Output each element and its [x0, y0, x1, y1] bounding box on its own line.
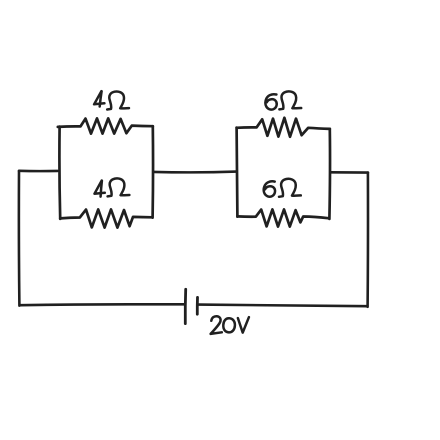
wire left outer vertical: [18, 171, 21, 306]
label 20V (battery voltage): [211, 316, 222, 334]
label 4 (top resistor R1 value): [94, 91, 104, 104]
left block right edge: [151, 126, 154, 217]
label 4 (bottom resistor R2 value): [95, 181, 105, 194]
battery B1 right plate (short): [196, 297, 199, 314]
wire bottom left segment: [21, 303, 185, 307]
resistor R1 4ohm (top of left block) with top edge wires: [58, 118, 153, 133]
resistor R2 4ohm (bottom of left block) with bottom edge wires: [60, 209, 152, 227]
label ohm (top resistor R1 unit): [107, 91, 129, 109]
label ohm (bottom resistor R2 unit): [108, 178, 130, 196]
label 6 (bottom resistor R4 value): [264, 181, 275, 196]
label ohm (top resistor R3 unit): [279, 91, 301, 109]
resistor R3 6ohm (top of right block) with top edge wires: [237, 118, 330, 137]
wire right stub (outer loop to right parallel block): [331, 171, 368, 174]
resistor R4 6ohm (bottom of right block) with bottom edge wires: [237, 209, 328, 226]
wire right outer vertical: [366, 173, 369, 307]
label 6 (top resistor R3 value): [265, 94, 276, 109]
wire left stub (mid-left node to outer loop): [19, 170, 58, 173]
battery B1 left plate (long): [184, 289, 187, 323]
right block right edge: [328, 129, 331, 219]
wire left block left edge: [58, 127, 62, 219]
right block left edge: [235, 128, 238, 217]
label ohm (bottom resistor R4 unit): [279, 179, 301, 197]
wire bottom right segment: [199, 305, 368, 307]
wire middle (between parallel blocks): [154, 170, 237, 173]
